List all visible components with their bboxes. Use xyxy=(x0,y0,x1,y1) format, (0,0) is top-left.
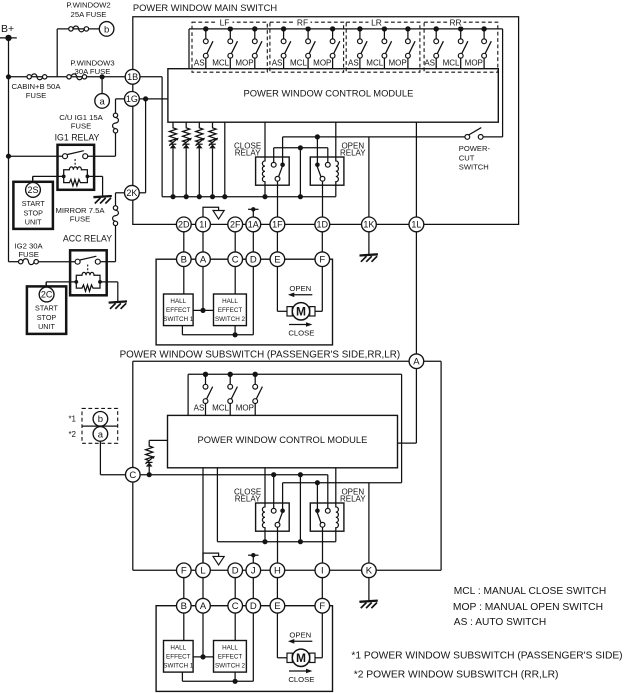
svg-text:2S: 2S xyxy=(27,185,38,195)
svg-text:2K: 2K xyxy=(126,188,137,198)
svg-text:MCL: MCL xyxy=(212,404,229,413)
svg-text:CUT: CUT xyxy=(459,153,475,162)
svg-text:MCL: MCL xyxy=(366,59,383,68)
svg-text:MOP: MOP xyxy=(313,59,331,68)
svg-text:AS: AS xyxy=(272,59,283,68)
svg-text:FUSE: FUSE xyxy=(26,91,47,100)
svg-text:25A FUSE: 25A FUSE xyxy=(71,10,107,19)
svg-text:1G: 1G xyxy=(126,94,138,104)
svg-text:POWER WINDOW SUBSWITCH (PASSEN: POWER WINDOW SUBSWITCH (PASSENGER'S SIDE… xyxy=(120,349,401,360)
svg-text:1K: 1K xyxy=(363,220,374,230)
svg-text:LF: LF xyxy=(220,18,230,28)
svg-text:AS: AS xyxy=(194,59,205,68)
svg-text:I: I xyxy=(321,566,324,577)
svg-text:1D: 1D xyxy=(317,220,329,230)
svg-text:AS : AUTO SWITCH: AS : AUTO SWITCH xyxy=(454,617,546,628)
svg-text:FUSE: FUSE xyxy=(71,121,92,130)
svg-text:*1: *1 xyxy=(68,415,76,424)
svg-text:STOP: STOP xyxy=(37,313,57,322)
svg-text:b: b xyxy=(104,24,109,35)
svg-text:MCL: MCL xyxy=(290,59,307,68)
svg-text:a: a xyxy=(99,96,105,107)
svg-text:AS: AS xyxy=(424,59,435,68)
svg-text:A: A xyxy=(413,357,420,368)
svg-text:2D: 2D xyxy=(178,220,190,230)
svg-text:C: C xyxy=(129,470,136,481)
svg-text:START: START xyxy=(22,199,46,208)
svg-text:L: L xyxy=(200,566,205,577)
svg-text:K: K xyxy=(366,566,373,577)
svg-text:a: a xyxy=(98,429,104,440)
svg-text:D: D xyxy=(232,566,239,577)
svg-text:MOP: MOP xyxy=(236,404,254,413)
svg-text:MOP: MOP xyxy=(235,59,253,68)
svg-text:POWER-: POWER- xyxy=(459,144,491,153)
svg-text:POWER WINDOW CONTROL MODULE: POWER WINDOW CONTROL MODULE xyxy=(198,435,368,446)
svg-text:MOP: MOP xyxy=(388,59,406,68)
svg-text:1A: 1A xyxy=(248,220,259,230)
svg-text:2C: 2C xyxy=(41,290,53,300)
svg-text:MOP : MANUAL OPEN SWITCH: MOP : MANUAL OPEN SWITCH xyxy=(453,602,603,613)
svg-text:1I: 1I xyxy=(199,220,207,230)
svg-text:ACC RELAY: ACC RELAY xyxy=(63,234,112,244)
svg-text:AS: AS xyxy=(348,59,359,68)
svg-text:RELAY: RELAY xyxy=(340,148,366,157)
svg-text:MOP: MOP xyxy=(465,59,483,68)
svg-text:B+: B+ xyxy=(1,23,14,35)
svg-text:STOP: STOP xyxy=(23,208,43,217)
svg-text:1B: 1B xyxy=(127,72,138,82)
svg-text:MCL: MCL xyxy=(443,59,460,68)
svg-text:2F: 2F xyxy=(230,220,241,230)
svg-text:30A FUSE: 30A FUSE xyxy=(75,67,111,76)
svg-text:MCL: MCL xyxy=(212,59,229,68)
svg-text:AS: AS xyxy=(194,404,205,413)
svg-text:UNIT: UNIT xyxy=(38,322,55,331)
svg-text:H: H xyxy=(274,566,281,577)
svg-text:1F: 1F xyxy=(272,220,283,230)
svg-text:FUSE: FUSE xyxy=(18,250,39,259)
svg-text:RR: RR xyxy=(449,18,461,28)
svg-text:*2 POWER WINDOW SUBSWITCH (RR,: *2 POWER WINDOW SUBSWITCH (RR,LR) xyxy=(354,669,559,680)
svg-text:*2: *2 xyxy=(68,430,76,439)
svg-text:POWER WINDOW MAIN SWITCH: POWER WINDOW MAIN SWITCH xyxy=(133,2,277,13)
svg-text:START: START xyxy=(35,304,59,313)
svg-text:RELAY: RELAY xyxy=(235,494,261,503)
svg-text:RELAY: RELAY xyxy=(340,494,366,503)
svg-text:LR: LR xyxy=(371,18,382,28)
svg-text:POWER WINDOW CONTROL MODULE: POWER WINDOW CONTROL MODULE xyxy=(244,88,414,99)
svg-text:F: F xyxy=(181,566,187,577)
svg-text:SWITCH: SWITCH xyxy=(459,163,489,172)
svg-text:MCL : MANUAL CLOSE SWITCH: MCL : MANUAL CLOSE SWITCH xyxy=(454,586,607,597)
svg-text:1L: 1L xyxy=(411,220,421,230)
svg-text:*1 POWER WINDOW SUBSWITCH (PAS: *1 POWER WINDOW SUBSWITCH (PASSENGER'S S… xyxy=(351,650,622,661)
svg-text:FUSE: FUSE xyxy=(70,215,91,224)
svg-text:UNIT: UNIT xyxy=(25,218,42,227)
svg-text:b: b xyxy=(98,414,103,425)
svg-text:J: J xyxy=(251,566,256,577)
svg-text:IG1 RELAY: IG1 RELAY xyxy=(55,132,100,142)
svg-text:RF: RF xyxy=(297,18,308,28)
svg-text:RELAY: RELAY xyxy=(235,148,261,157)
svg-text:P.WINDOW2: P.WINDOW2 xyxy=(66,1,110,10)
